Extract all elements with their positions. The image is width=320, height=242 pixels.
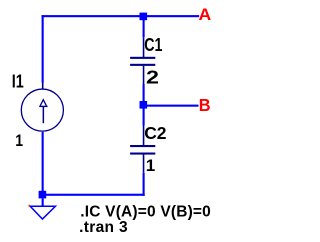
wire left vertical bbox=[42, 15, 44, 83]
current source I1 circle bbox=[21, 89, 63, 131]
svg-text:.IC V(A)=0 V(B)=0: .IC V(A)=0 V(B)=0 bbox=[80, 204, 211, 221]
red dot artifact bbox=[29, 205, 30, 207]
current source top pin stub bbox=[42, 83, 44, 89]
svg-text:.tran 3: .tran 3 bbox=[79, 219, 128, 236]
svg-text:A: A bbox=[199, 5, 212, 24]
current source I1 arrow shaft bbox=[43, 107, 45, 123]
node junction bottom bbox=[39, 191, 47, 199]
ground stub wire bbox=[42, 198, 44, 206]
current source I1 arrow base bar bbox=[39, 106, 47, 107]
wire node B horizontal bbox=[145, 105, 199, 107]
svg-text:I1: I1 bbox=[12, 72, 24, 92]
ground symbol bbox=[30, 206, 55, 219]
node junction top bbox=[140, 13, 148, 21]
node junction B bbox=[140, 101, 148, 109]
svg-text:C1: C1 bbox=[144, 35, 162, 55]
capacitor C2 top lead bbox=[143, 125, 145, 145]
capacitor C1 top lead bbox=[143, 37, 145, 57]
svg-text:1: 1 bbox=[146, 156, 156, 175]
wire from circle bottom bbox=[42, 132, 44, 195]
wire right vertical seg3 bbox=[143, 173, 145, 196]
capacitor C2 bottom lead bbox=[143, 155, 145, 173]
wire right vertical seg1 bbox=[143, 15, 145, 37]
wire bottom horizontal bbox=[42, 194, 145, 196]
capacitor C1 bottom lead bbox=[143, 66, 145, 84]
wire top horizontal bbox=[42, 15, 200, 17]
wire right vertical seg2 bbox=[143, 84, 145, 126]
svg-text:C2: C2 bbox=[144, 123, 167, 143]
capacitor C2 bbox=[130, 145, 155, 155]
svg-text:B: B bbox=[199, 95, 211, 115]
capacitor C1 bbox=[130, 57, 155, 66]
current source I1 arrow head bbox=[40, 100, 46, 106]
svg-text:2: 2 bbox=[146, 68, 159, 88]
svg-text:1: 1 bbox=[15, 131, 23, 150]
